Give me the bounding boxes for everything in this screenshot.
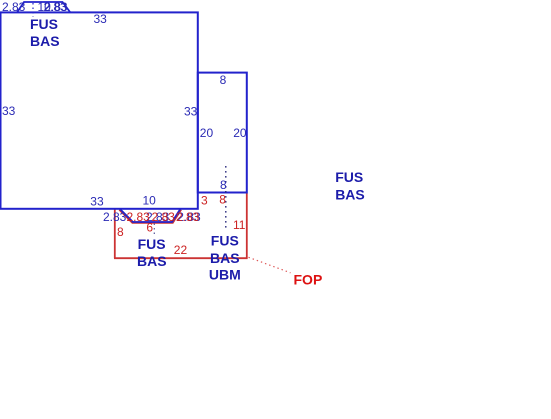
svg-text:11: 11	[233, 218, 246, 232]
svg-text:6: 6	[146, 221, 153, 235]
svg-text:BAS: BAS	[210, 250, 240, 266]
svg-text:2.83: 2.83	[2, 0, 26, 14]
svg-text:22: 22	[174, 243, 188, 257]
svg-text:2.83: 2.83	[176, 210, 200, 224]
svg-text:20: 20	[200, 126, 214, 140]
svg-text:BAS: BAS	[335, 187, 365, 203]
svg-text:FUS: FUS	[211, 232, 239, 248]
svg-text:8: 8	[220, 178, 227, 192]
svg-text:33: 33	[94, 12, 108, 26]
svg-text:BAS: BAS	[137, 253, 167, 269]
svg-text:10: 10	[143, 193, 157, 207]
svg-text:8: 8	[117, 225, 124, 239]
svg-text:33: 33	[2, 104, 16, 118]
svg-text:2.83: 2.83	[44, 0, 68, 14]
svg-text:8: 8	[220, 73, 227, 87]
svg-text:FUS: FUS	[335, 169, 363, 185]
svg-text:3: 3	[201, 193, 208, 207]
svg-text:BAS: BAS	[30, 33, 60, 49]
svg-text:8: 8	[219, 192, 226, 206]
svg-text:FOP: FOP	[294, 272, 323, 288]
svg-text:33: 33	[90, 194, 104, 208]
svg-text:FUS: FUS	[30, 16, 58, 32]
svg-text:2.83: 2.83	[152, 210, 176, 224]
svg-text:2.83: 2.83	[103, 210, 127, 224]
svg-text:FUS: FUS	[138, 236, 166, 252]
svg-text:20: 20	[233, 126, 247, 140]
svg-text:33: 33	[184, 105, 198, 119]
svg-text:UBM: UBM	[209, 267, 241, 283]
